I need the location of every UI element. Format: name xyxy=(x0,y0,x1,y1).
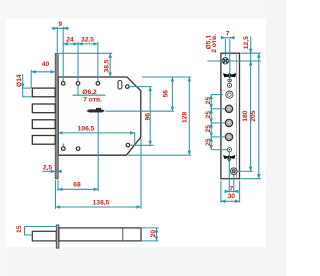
ext plate-right down xyxy=(239,181,241,203)
dim chain 25 d xyxy=(210,137,212,150)
faceplate plate xyxy=(221,53,240,179)
dim 96 xyxy=(149,87,151,146)
tick P6 xyxy=(211,149,227,151)
svg-text:24: 24 xyxy=(66,37,74,44)
ext bar-bottom right xyxy=(141,240,159,242)
dim 138,5 xyxy=(56,206,142,208)
svg-text:106,5: 106,5 xyxy=(78,126,95,133)
hole P3 xyxy=(225,105,232,112)
lock body outline xyxy=(58,77,141,155)
side body bar xyxy=(59,228,141,241)
ext screw2 down xyxy=(233,175,235,193)
svg-text:128: 128 xyxy=(182,112,189,123)
ext hole2 up xyxy=(77,42,79,81)
dim D14 tick bottom xyxy=(23,96,32,98)
dim 7 arrow r xyxy=(230,37,234,39)
slot xyxy=(118,81,122,90)
hole P4 xyxy=(225,119,232,126)
faceplate strip (edge view) xyxy=(55,54,58,179)
ext screw2 right xyxy=(238,170,253,172)
latch bump xyxy=(96,108,101,110)
ext plate-top right xyxy=(241,52,261,54)
side bolt stub xyxy=(32,231,56,241)
dim 106,5 right arrow xyxy=(130,132,135,134)
dim 106,5 xyxy=(58,133,135,146)
ext latch right xyxy=(106,110,175,112)
tick P2 xyxy=(211,94,223,96)
hole H1 xyxy=(61,82,65,86)
svg-text:2 отв.: 2 отв. xyxy=(211,34,218,53)
dim 15 vertical xyxy=(24,227,26,236)
deadbolt B1 xyxy=(32,88,55,97)
ext strip-right up xyxy=(56,27,58,54)
leader D6,2 vertical xyxy=(77,85,79,95)
dim chain 25 b xyxy=(210,109,212,123)
main view dimension texts xyxy=(16,21,188,207)
tick P5 xyxy=(211,136,225,138)
hole P1 xyxy=(227,83,231,87)
side faceplate xyxy=(56,225,59,248)
bottom margin band xyxy=(0,247,286,276)
ext strip-left down xyxy=(55,180,57,209)
svg-text:205: 205 xyxy=(250,110,257,121)
hole P6 xyxy=(227,148,231,152)
svg-text:30: 30 xyxy=(228,193,236,200)
hole H6 xyxy=(62,147,66,151)
svg-text:Ø6,2: Ø6,2 xyxy=(82,89,97,96)
screw S2 xyxy=(230,168,237,175)
tick P4 xyxy=(211,122,225,124)
svg-text:138,5: 138,5 xyxy=(93,200,110,207)
tick P3 xyxy=(211,108,225,110)
hole H3 xyxy=(96,82,100,86)
dim 9 arrow right xyxy=(63,27,67,29)
logo top xyxy=(223,73,236,82)
dim 2,5 arrow l xyxy=(52,170,56,172)
svg-text:25: 25 xyxy=(205,97,212,105)
dim 32,5 xyxy=(78,43,98,45)
svg-text:40: 40 xyxy=(42,61,50,68)
dim 56 xyxy=(171,77,173,111)
deadbolt B4 xyxy=(32,136,55,145)
ext center up xyxy=(229,39,231,83)
ext hole3 up xyxy=(97,42,99,81)
top margin band xyxy=(0,0,286,18)
dim 12,5 arrow bottom xyxy=(250,61,252,65)
dim 128 xyxy=(188,77,190,155)
hole H2 xyxy=(76,82,80,86)
dim D14 arrow top xyxy=(22,84,24,88)
deadbolt B2 xyxy=(32,104,55,113)
ext hole4 right xyxy=(130,86,152,88)
latch lever xyxy=(87,110,105,113)
svg-text:2,5: 2,5 xyxy=(43,165,53,172)
ext latch down xyxy=(97,113,99,192)
svg-text:12,5: 12,5 xyxy=(243,36,250,49)
right margin band xyxy=(266,0,286,276)
dim 7 bottom line xyxy=(225,190,239,192)
svg-text:7 отв.: 7 отв. xyxy=(83,96,102,103)
dim D14 line xyxy=(22,75,24,98)
ext bodytop right xyxy=(142,76,191,78)
svg-text:56: 56 xyxy=(163,90,170,98)
hole P5 xyxy=(225,133,232,140)
right view dimension texts xyxy=(205,31,257,200)
dim 2,5 arrow r xyxy=(57,170,61,172)
dim 7 arrow l xyxy=(222,37,226,39)
ext body-face down xyxy=(57,180,59,191)
faceplate inner edge line xyxy=(235,53,237,179)
dim D14 tick top xyxy=(23,87,31,89)
ext hole1 up xyxy=(62,27,64,82)
dim 15 bottom ext xyxy=(25,234,33,236)
deadbolt B3 xyxy=(32,120,55,129)
svg-text:32,5: 32,5 xyxy=(81,37,94,44)
dim 40 xyxy=(31,71,55,73)
svg-text:68: 68 xyxy=(73,181,81,188)
dim 30 xyxy=(221,200,240,202)
left margin band xyxy=(0,0,6,276)
svg-text:25: 25 xyxy=(205,138,212,146)
ext hole5 right xyxy=(130,144,153,146)
svg-text:180: 180 xyxy=(242,110,249,121)
svg-text:15: 15 xyxy=(16,225,23,233)
svg-text:96: 96 xyxy=(145,113,152,121)
svg-text:7: 7 xyxy=(230,185,234,192)
leader D5,1 xyxy=(207,60,260,62)
ext screw1 up xyxy=(224,39,226,57)
dim 12,5 line xyxy=(250,37,252,62)
svg-text:25: 25 xyxy=(205,125,212,133)
svg-text:9: 9 xyxy=(58,21,62,28)
dim 68 xyxy=(58,188,98,190)
dim 2,5 line xyxy=(43,170,63,172)
ext hole6 up stub xyxy=(62,144,64,147)
ext plate-bottom right xyxy=(241,178,262,180)
ext body-right down xyxy=(140,139,142,209)
dim chain 25 c xyxy=(210,123,212,137)
dim 15 top ext xyxy=(25,226,57,228)
ext bolt-tip vertical xyxy=(30,70,32,88)
screw S1 xyxy=(222,58,228,64)
svg-text:7: 7 xyxy=(226,31,230,38)
side bar divider xyxy=(122,228,124,241)
dim 180 xyxy=(250,61,252,171)
dim 7b arrow l xyxy=(226,190,230,192)
ext striptop right xyxy=(59,52,112,54)
dim 12,5 arrow top xyxy=(250,50,252,54)
dim chain 25 a xyxy=(210,95,212,109)
svg-text:20: 20 xyxy=(150,230,157,238)
dim 9 arrow left xyxy=(53,27,57,29)
dim 7 top line xyxy=(221,37,235,39)
svg-text:25: 25 xyxy=(205,111,212,119)
leader D6,2 underline xyxy=(73,94,106,96)
dim 7b arrow r xyxy=(234,190,238,192)
dim 24 xyxy=(63,43,78,45)
ext bar-top right xyxy=(141,227,159,229)
svg-text:38,5: 38,5 xyxy=(103,59,110,72)
dim 20 line xyxy=(156,228,158,241)
dim 38,5 line xyxy=(109,53,111,77)
hole H5 xyxy=(126,143,130,147)
hole H7 xyxy=(76,147,80,151)
hole P2 double xyxy=(226,91,233,98)
ext bodybottom right xyxy=(128,154,191,156)
dim 9 line xyxy=(52,27,70,29)
svg-text:Ø14: Ø14 xyxy=(16,74,23,87)
ext plate-left down xyxy=(220,181,222,203)
ext hole-column down xyxy=(228,152,230,192)
hole H4 xyxy=(126,85,130,89)
logo bottom xyxy=(223,155,235,162)
dim 205 xyxy=(258,53,260,179)
